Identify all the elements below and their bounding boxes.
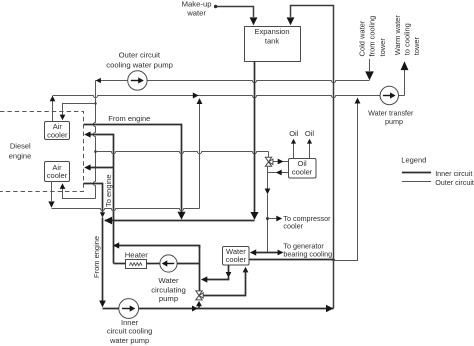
wire outer return bus y208.5 and riser x199.5 (52, 209, 200, 211)
svg-text:cooler: cooler (47, 130, 68, 139)
node legend inner circuit sample (402, 172, 431, 174)
wire cold water drop (369, 59, 371, 71)
wire air cooler 1 inlet (63, 104, 96, 116)
svg-text:pump: pump (159, 294, 178, 303)
wire pump suction riser x199.5 (177, 246, 199, 291)
node make-up water connection dot (214, 5, 217, 8)
node junction dot valve feed (94, 150, 97, 153)
wire main riser x333.5 (333, 16, 335, 309)
svg-text:circuit cooling: circuit cooling (107, 327, 152, 336)
wire air cooler 2 inlet arrow (60, 183, 66, 189)
wire heater bypass y245.5 (118, 246, 200, 249)
wire outer return bus y95.5 (53, 96, 381, 98)
svg-text:Inner circuit: Inner circuit (435, 169, 472, 178)
oil cooler (289, 159, 317, 179)
svg-text:cooler: cooler (226, 255, 247, 264)
svg-text:Outer circuit: Outer circuit (435, 178, 474, 187)
svg-text:cooling water pump: cooling water pump (106, 61, 173, 70)
svg-text:cooler: cooler (283, 222, 303, 231)
svg-text:bearing cooling: bearing cooling (283, 249, 332, 258)
svg-text:tower: tower (412, 36, 421, 55)
svg-text:water pump: water pump (109, 336, 149, 345)
wire oil cooler outlet return (268, 172, 289, 174)
wire water cooler bottom outlet (228, 265, 230, 272)
wire valve2 to bus (196, 301, 202, 306)
wire oil valve drop x267.5 (267, 166, 269, 252)
wire riser top feed to expansion tank (291, 6, 334, 18)
wire outer bus y80.5 (96, 80, 128, 82)
wire heater to engine riser (114, 263, 126, 265)
wire outer return riser x357.5 (334, 103, 358, 261)
svg-text:Oil: Oil (305, 129, 315, 138)
wire warm water riser (404, 70, 406, 96)
svg-text:water: water (186, 8, 206, 17)
wire valve to oil cooler inlet (273, 161, 289, 163)
svg-text:tank: tank (265, 37, 279, 46)
wire water cooler bottom inlet (243, 267, 249, 273)
wire expansion tank drop x254.5 (254, 62, 256, 214)
svg-text:to cooling: to cooling (403, 23, 412, 55)
expansion tank (245, 27, 301, 62)
wire oil cooler valve feed y151.5 (96, 152, 269, 154)
svg-text:pump: pump (385, 117, 403, 126)
svg-text:To engine: To engine (104, 174, 113, 207)
wire air cooler 2 outlet drop (51, 182, 53, 202)
svg-text:Diesel: Diesel (10, 142, 31, 151)
air cooler 2 (45, 162, 70, 182)
diesel engine dashed boundary (0, 112, 84, 192)
svg-text:cooler: cooler (47, 171, 68, 180)
wire water cooler outlet y259.5 (249, 259, 334, 261)
wire heater to pump (147, 263, 160, 265)
node legend outer circuit sample (402, 181, 431, 183)
water cooler (223, 247, 250, 266)
node junction dot riser base (332, 258, 335, 261)
svg-text:Expansion: Expansion (254, 27, 289, 36)
svg-text:Heater: Heater (125, 250, 149, 259)
svg-text:From engine: From engine (108, 114, 150, 123)
wire inner bottom bus y308.5 (103, 308, 334, 310)
svg-text:Cold water: Cold water (357, 20, 366, 56)
wire water cooler feed y252.5 (256, 252, 278, 254)
svg-text:Warm water: Warm water (393, 15, 402, 56)
wire air cooler 1 outlet riser (52, 96, 54, 121)
valve thermostatic three-way valve V1 (265, 157, 271, 162)
wire make-up water to expansion tank (217, 7, 254, 18)
pump water circulating pump P3 (160, 255, 177, 272)
svg-text:engine: engine (9, 152, 32, 161)
pump outer circuit cooling water pump P1 (128, 71, 147, 90)
wire engine outlet y183.5 and from-engine drop x102.5 (84, 184, 103, 213)
valve mixing valve V2 (196, 291, 202, 296)
svg-text:Make-up: Make-up (182, 0, 212, 8)
pump water transfer pump P2 (380, 86, 398, 104)
svg-text:from cooling: from cooling (368, 16, 377, 57)
node junction dot compressor branch (266, 217, 269, 220)
svg-text:tower: tower (378, 38, 387, 57)
svg-text:Outer circuit: Outer circuit (119, 51, 161, 60)
wire outer supply vertical x95.5 (93, 81, 95, 199)
svg-text:cooler: cooler (292, 168, 313, 177)
wire inner bus y220.5 (105, 220, 255, 222)
heater (126, 260, 147, 269)
svg-text:Legend: Legend (401, 156, 426, 165)
wire to compressor cooler stub (268, 218, 278, 220)
wire to engine riser x113.5 (90, 135, 114, 264)
svg-text:Oil: Oil (289, 129, 299, 138)
air cooler 1 (45, 122, 70, 140)
svg-text:From engine: From engine (92, 236, 101, 278)
wire oil stubs (294, 143, 310, 159)
pump inner circuit cooling water pump P4 (119, 299, 139, 319)
node junction dot AC1 feed (94, 102, 96, 104)
svg-text:Water: Water (158, 276, 179, 285)
wire from engine line y124.5 (84, 125, 182, 213)
